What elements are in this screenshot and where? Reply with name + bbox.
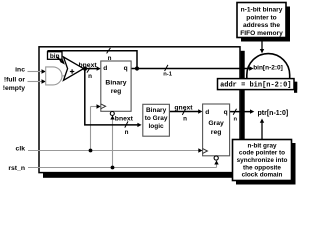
svg-text:the opposite: the opposite [243, 164, 281, 171]
bus slash n on gnext [182, 109, 185, 115]
dome node bin[n-2:0] [247, 54, 290, 79]
svg-text:n-bit gray: n-bit gray [247, 142, 277, 149]
svg-text:rst_n: rst_n [8, 165, 25, 172]
wire ptr output [230, 109, 255, 113]
wire bin feedback (q to adder) [47, 51, 137, 69]
svg-text:Binary: Binary [146, 107, 167, 114]
bus slash n-1 [165, 65, 168, 71]
callout top: n-1-bit binary pointer note [237, 3, 286, 38]
svg-text:n: n [234, 116, 238, 122]
svg-text:gnext: gnext [174, 105, 193, 112]
module box (counter block outline) [39, 47, 240, 173]
adder U2 [64, 57, 84, 80]
svg-text:logic: logic [149, 123, 165, 130]
arrow callout top to dome [260, 42, 264, 54]
module box drop shadow [43, 51, 245, 178]
svg-text:reg: reg [111, 88, 122, 95]
svg-text:inc: inc [15, 67, 25, 74]
plus sign [70, 69, 74, 73]
wire rst_n distribution [28, 115, 219, 167]
register Binary reg [101, 61, 131, 116]
net label box bin [48, 52, 63, 60]
reset bubble [214, 156, 218, 160]
svg-text:Binary: Binary [105, 80, 126, 87]
net label box addr = bin[n-2:0] [218, 79, 295, 90]
callout bottom drop shadow [236, 143, 296, 185]
svg-text:address the: address the [243, 22, 280, 29]
bus slash n on feedback [107, 48, 111, 54]
arrow bin to adder input [57, 57, 65, 65]
svg-text:bnext: bnext [115, 116, 134, 123]
wire gnext [169, 109, 202, 113]
wire inc input [28, 69, 46, 73]
arrow callout bottom to ptr wire [260, 119, 264, 140]
svg-text:ptr[n-1:0]: ptr[n-1:0] [258, 110, 289, 117]
AND gate U1 [46, 67, 62, 85]
svg-text:q: q [224, 109, 228, 116]
wire n-1 binary q to FIFO address dome [131, 66, 254, 70]
wire bnext down to binary-to-gray logic [85, 69, 142, 128]
clock pin triangle [101, 104, 106, 109]
svg-text:code pointer to: code pointer to [239, 150, 285, 157]
register Gray reg [203, 104, 230, 160]
callout top drop shadow [241, 7, 290, 42]
addr box drop shadow [221, 82, 298, 93]
junction q node [135, 66, 139, 70]
wire clk distribution [28, 104, 203, 152]
callout bottom: n-bit gray code pointer note [233, 140, 292, 181]
svg-text:to Gray: to Gray [145, 115, 168, 122]
bus slash n on bnext [87, 67, 90, 72]
reset bubble [110, 112, 114, 116]
svg-text:FIFO memory: FIFO memory [240, 30, 283, 37]
clock pin triangle [203, 149, 208, 154]
bus slash n on lower bnext [125, 121, 128, 127]
junction clk node [89, 149, 93, 153]
svg-text:n-1: n-1 [163, 72, 172, 78]
svg-text:n: n [125, 129, 129, 136]
wire bnext adder output to d pin [84, 66, 101, 70]
wire AND output to adder [62, 75, 65, 77]
block Binary to Gray logic [143, 104, 170, 136]
bus slash n on ptr [233, 109, 236, 115]
svg-text:bin[n-2:0]: bin[n-2:0] [253, 65, 283, 72]
junction rst_n node [111, 166, 115, 170]
svg-text:q: q [124, 65, 128, 72]
wire !full/!empty input [28, 79, 46, 83]
svg-text:!full or: !full or [4, 76, 25, 83]
svg-text:clk: clk [16, 145, 26, 152]
svg-text:clock domain: clock domain [242, 172, 283, 179]
svg-text:pointer to: pointer to [246, 14, 276, 21]
svg-text:addr = bin[n-2:0]: addr = bin[n-2:0] [220, 82, 291, 90]
svg-text:!empty: !empty [3, 85, 26, 92]
label !full or !empty [3, 76, 26, 92]
svg-text:Gray: Gray [208, 120, 224, 127]
svg-text:d: d [103, 65, 107, 72]
svg-text:n: n [183, 116, 187, 123]
junction bnext node [83, 67, 87, 71]
svg-text:reg: reg [211, 129, 222, 136]
svg-text:n-1-bit binary: n-1-bit binary [241, 7, 283, 14]
svg-text:n: n [88, 73, 92, 80]
svg-text:d: d [205, 109, 209, 116]
svg-text:synchronize into: synchronize into [237, 157, 288, 164]
